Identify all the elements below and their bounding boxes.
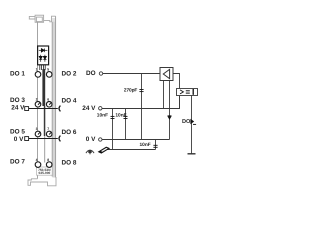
svg-text:10nF: 10nF [115, 112, 126, 118]
svg-text:0 V: 0 V [86, 136, 96, 143]
svg-text:7: 7 [47, 127, 49, 131]
terminal module top profile [29, 15, 55, 22]
capacitor C2 10nF [111, 116, 115, 118]
module inner shading line [53, 22, 55, 178]
jumper contact hook row2 [59, 106, 60, 112]
internal wire bundle [42, 69, 45, 106]
connector square 24V [25, 107, 29, 111]
wire 24V feed row2 [29, 108, 58, 110]
svg-text:DO 6: DO 6 [62, 129, 77, 136]
wire capacitor C1 stub [141, 74, 143, 140]
clamp circle row2 right (pin 6) [46, 102, 52, 108]
clamp circle row3 left (pin 3) [35, 131, 41, 137]
clamp circle row3 right (pin 7) [46, 131, 52, 137]
capacitor C1 270pF [139, 90, 143, 92]
earth potential symbol [86, 150, 94, 153]
driver triangle [163, 69, 169, 78]
clamp tick row3 left [38, 132, 40, 135]
svg-text:DO 1: DO 1 [10, 71, 25, 78]
svg-text:DO 3: DO 3 [10, 97, 25, 104]
wire driver output [173, 74, 180, 89]
clamp circle row1 left (pin 1) [35, 72, 41, 78]
DO output terminal bar [188, 153, 196, 155]
svg-text:0 V: 0 V [14, 136, 24, 143]
output tick [193, 123, 196, 125]
wire output block to 24V rail [179, 96, 181, 109]
terminal module body edges [52, 18, 56, 178]
op-amp driver U2 [160, 68, 173, 81]
svg-text:5: 5 [47, 68, 49, 72]
svg-text:DO 2: DO 2 [62, 71, 77, 78]
svg-text:8: 8 [47, 158, 49, 162]
node 24V connector [99, 107, 102, 110]
clamp circle row2 left (pin 2) [35, 102, 41, 108]
pin numbers row2 [36, 98, 50, 102]
node 0V connector [99, 138, 102, 141]
svg-text:3: 3 [36, 127, 38, 131]
clamp circle row1 right (pin 5) [46, 72, 52, 78]
output arrow marker [190, 119, 194, 124]
capacitor C3 10nF [124, 116, 128, 118]
svg-text:DO: DO [182, 119, 191, 125]
svg-text:6: 6 [47, 98, 49, 102]
svg-text:DO 4: DO 4 [62, 98, 77, 105]
svg-text:2: 2 [36, 98, 38, 102]
clamp circle row4 right (pin 8) [46, 162, 52, 168]
wire DO output line [191, 96, 193, 154]
clamp tick row2 left [38, 102, 40, 105]
svg-text:4: 4 [36, 158, 38, 162]
svg-text:10nF: 10nF [140, 142, 151, 148]
status LED 2 inside LED box [43, 55, 46, 62]
svg-text:270pF: 270pF [124, 87, 138, 93]
svg-text:DO 8: DO 8 [62, 160, 77, 167]
pin numbers row3 [36, 127, 50, 131]
svg-text:24 V: 24 V [11, 105, 25, 112]
clamp tick row2 right [49, 102, 51, 105]
svg-text:DO 7: DO 7 [10, 159, 25, 166]
wire DO input line [103, 73, 160, 75]
svg-text:DO 5: DO 5 [10, 129, 25, 136]
clamp tick row3 right [49, 132, 51, 135]
wire 0V rail [102, 139, 170, 141]
wire driver pin to 24V [163, 81, 165, 109]
diode symbol inside LED box [39, 49, 48, 53]
clamp circle row4 left (pin 4) [35, 162, 41, 168]
jumper contact hook row3 [59, 136, 60, 142]
connector square 0V [25, 137, 29, 141]
wire bundle stubs below LED box [40, 65, 45, 70]
wire 24V rail [102, 96, 180, 109]
terminal module bottom foot [28, 178, 56, 186]
wire capacitor C4 stub (0V to earth) [155, 140, 157, 150]
LED indicator box U1 [38, 46, 49, 65]
pin numbers row1 [36, 68, 50, 72]
wire driver pin through diode [169, 81, 171, 140]
svg-text:1: 1 [36, 68, 38, 72]
rail contact arrow [98, 147, 111, 154]
wire functional earth bus [104, 149, 156, 151]
wire capacitor C2 stub (24V to earth) [112, 109, 114, 150]
diode D1 [167, 116, 171, 120]
capacitor C4 10nF [153, 145, 157, 147]
part number box [37, 167, 53, 175]
output stage block U3 [177, 89, 198, 96]
svg-text:24 V: 24 V [82, 105, 96, 112]
node DO input connector [99, 72, 102, 75]
status LED 1 inside LED box [39, 55, 42, 62]
svg-text:025-000: 025-000 [39, 171, 51, 175]
wire 0V feed row3 [29, 138, 58, 140]
svg-text:10nF: 10nF [97, 112, 108, 118]
output stage symbols [180, 89, 194, 95]
svg-text:DO: DO [86, 70, 96, 77]
wire capacitor C3 stub (24V to 0V) [125, 109, 127, 140]
pin numbers row4 [36, 158, 50, 162]
